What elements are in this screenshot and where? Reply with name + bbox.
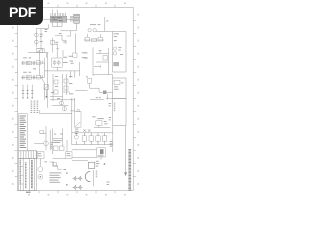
label xyxy=(53,140,62,143)
label xyxy=(51,142,52,149)
wire xyxy=(50,92,75,100)
label xyxy=(104,121,108,124)
revision table header grid xyxy=(19,151,37,159)
resistor R10 xyxy=(54,90,58,94)
wire xyxy=(96,48,109,75)
label U3 xyxy=(114,33,119,41)
block U4 xyxy=(113,78,126,98)
wire xyxy=(96,61,109,63)
IC U1 xyxy=(50,13,67,22)
wire xyxy=(46,53,48,58)
tube V5 xyxy=(113,47,116,50)
bus wire xyxy=(44,70,79,72)
resistor R12 xyxy=(64,86,68,90)
label U4 xyxy=(114,82,124,89)
wire xyxy=(106,97,113,99)
block U5 xyxy=(113,98,126,125)
resistor R18 xyxy=(96,121,102,126)
wire xyxy=(40,132,46,134)
wire xyxy=(100,157,102,160)
wire xyxy=(66,140,68,152)
ground marks xyxy=(83,129,90,132)
wire xyxy=(40,29,42,49)
tube V3 xyxy=(88,29,91,32)
block U3 xyxy=(113,32,126,73)
wire xyxy=(53,138,63,140)
revision entries text xyxy=(20,116,27,148)
wire xyxy=(44,58,46,63)
connector J2 xyxy=(70,17,74,22)
node A wires xyxy=(36,25,49,48)
page label xyxy=(26,192,31,193)
wire xyxy=(67,19,70,21)
potentiometer VR2 xyxy=(53,60,56,66)
relay K1 xyxy=(66,152,72,159)
resistor R4 xyxy=(50,41,54,45)
wire xyxy=(57,67,75,78)
label T1 xyxy=(75,129,79,134)
wire xyxy=(40,158,42,166)
wire xyxy=(40,50,45,100)
wire xyxy=(93,170,95,186)
label channel 1 xyxy=(23,56,31,59)
PDF badge xyxy=(0,0,43,25)
zone ticks top and bottom xyxy=(39,5,115,194)
transformer T1 xyxy=(75,110,81,127)
capacitor bank C11-C15 xyxy=(74,133,107,145)
zone ticks left and right xyxy=(15,20,137,176)
tube V7 xyxy=(86,76,92,83)
bus wire xyxy=(72,144,113,146)
wire xyxy=(96,17,113,31)
label xyxy=(84,52,88,58)
jack J4 xyxy=(44,141,49,146)
tube V9 xyxy=(62,106,66,111)
wire xyxy=(53,128,63,154)
wire xyxy=(79,62,81,76)
label xyxy=(51,76,58,93)
tube V8 xyxy=(60,100,64,105)
label xyxy=(63,168,66,171)
tube V1 xyxy=(35,33,39,37)
junction dot xyxy=(66,172,68,174)
wire xyxy=(36,49,44,53)
label xyxy=(69,76,73,94)
tube V2 xyxy=(35,40,39,44)
resistor R21 xyxy=(59,146,64,151)
ground xyxy=(96,96,101,99)
label xyxy=(57,97,60,100)
label xyxy=(109,103,112,120)
capacitor C16 xyxy=(53,163,57,167)
wire xyxy=(112,75,114,78)
wire xyxy=(56,44,59,58)
label L1 xyxy=(96,171,97,178)
wire xyxy=(40,110,72,114)
jack J7 xyxy=(38,175,43,180)
label U5 xyxy=(114,103,116,112)
wire xyxy=(84,39,104,41)
revision table border xyxy=(19,114,28,151)
wire xyxy=(62,50,64,56)
resistor R14 xyxy=(103,56,108,61)
capacitor C9 xyxy=(92,38,97,42)
tube V4 xyxy=(93,29,96,32)
inductor L1 xyxy=(85,171,90,181)
connector J5 xyxy=(37,152,44,159)
wire xyxy=(52,105,69,107)
title text name xyxy=(31,160,33,188)
label xyxy=(97,117,104,120)
jack J6 xyxy=(38,167,43,172)
junction dot xyxy=(104,163,106,165)
potentiometer VR1 xyxy=(37,49,43,53)
wire xyxy=(75,90,87,92)
wire xyxy=(94,65,100,68)
wire xyxy=(90,83,113,92)
wire xyxy=(47,53,49,108)
edge text xyxy=(128,149,131,191)
wire arrow xyxy=(45,89,47,98)
wire xyxy=(92,48,94,76)
label R13 xyxy=(82,52,87,58)
label R4 xyxy=(55,42,58,45)
component blob xyxy=(103,91,107,95)
resistor R9 xyxy=(54,80,58,84)
label channel 2 xyxy=(23,68,36,72)
title block small text xyxy=(19,160,20,182)
wire xyxy=(28,52,48,54)
label xyxy=(110,141,113,147)
wire xyxy=(67,31,71,36)
tube V6 xyxy=(113,52,116,55)
wire xyxy=(52,22,62,26)
resistor R13 xyxy=(73,53,77,57)
wire xyxy=(52,38,54,53)
wire xyxy=(50,162,62,169)
wire xyxy=(55,35,66,44)
zone letters xyxy=(12,3,139,196)
label xyxy=(106,20,108,23)
junction dot xyxy=(66,184,68,186)
capacitor C8 xyxy=(85,37,90,41)
bus wire xyxy=(93,74,113,76)
capacitor C10 xyxy=(98,37,103,41)
switch SW1 bank xyxy=(22,85,34,99)
diode D1 xyxy=(44,85,49,90)
label xyxy=(90,23,100,26)
label V1 xyxy=(40,34,43,42)
wire xyxy=(90,94,108,99)
wire xyxy=(44,63,46,77)
bus wire xyxy=(72,132,113,134)
note text xyxy=(31,101,39,113)
resistor R16 xyxy=(114,80,120,84)
wire xyxy=(52,22,57,26)
wire xyxy=(72,149,97,151)
wire xyxy=(46,126,50,150)
connector J3 xyxy=(74,14,80,23)
sheet border frame xyxy=(18,7,134,190)
label xyxy=(107,182,110,185)
capacitor C6 xyxy=(99,50,102,53)
label xyxy=(92,115,95,118)
fuse F1 xyxy=(97,148,106,157)
resistor R19 xyxy=(40,131,44,134)
wire xyxy=(34,143,44,145)
wire arrow xyxy=(124,126,127,177)
wire xyxy=(87,34,100,37)
potentiometer VR3 xyxy=(57,60,60,66)
switch SW2 xyxy=(88,161,99,169)
label xyxy=(44,160,47,163)
channel 1 input stage xyxy=(21,60,45,65)
wire xyxy=(70,98,74,112)
channel 2 input stage xyxy=(21,75,45,80)
wire xyxy=(112,126,114,153)
title text company xyxy=(25,162,27,188)
label xyxy=(54,133,63,136)
wire xyxy=(72,158,97,161)
volume box U2 xyxy=(52,58,62,67)
resistor R20 xyxy=(53,146,58,151)
label VR2 xyxy=(63,57,68,63)
label C5 xyxy=(69,56,74,64)
label R3 xyxy=(45,29,48,32)
label blob xyxy=(113,62,119,66)
resistor R11 xyxy=(64,79,68,83)
title block border xyxy=(19,159,37,191)
label xyxy=(59,33,66,43)
label xyxy=(118,47,123,55)
wire xyxy=(53,157,66,159)
note rows xyxy=(49,172,61,182)
battery B1 cells xyxy=(73,176,83,190)
wire xyxy=(94,125,110,127)
wire xyxy=(53,74,67,101)
wire xyxy=(71,98,73,145)
wire xyxy=(43,19,50,21)
wire xyxy=(52,10,57,14)
wire xyxy=(74,33,76,53)
wire xyxy=(61,23,77,31)
